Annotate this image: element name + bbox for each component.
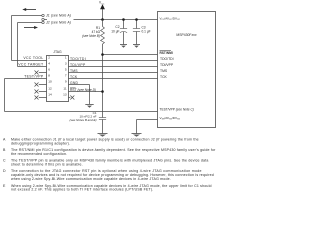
IC U1 MSP430 box [158, 12, 216, 128]
label RST (see Note D) [70, 88, 96, 92]
wire C2 lower stem [123, 32, 125, 45]
svg-text:1: 1 [65, 56, 67, 60]
wire pin10 stub [39, 84, 47, 86]
no-connect X pin 13 [70, 96, 74, 100]
wire Vcc rail [74, 19, 158, 21]
wire C3 stem [136, 20, 138, 29]
svg-text:RST (see Note D): RST (see Note D) [70, 88, 96, 92]
capacitor C3 [133, 29, 140, 32]
pin numbers right column [63, 56, 67, 97]
wire Vcc supply stem [102, 9, 104, 20]
notes text block [3, 138, 216, 192]
connector jumper circle J1 [42, 14, 44, 16]
wire VSS from chip [137, 119, 158, 121]
connector JTAG box [47, 56, 69, 102]
svg-text:D: D [3, 169, 6, 173]
wire VCC TOOL to pin 2 [12, 60, 47, 62]
junction RST/NMI node [101, 53, 104, 56]
svg-text:10 µF: 10 µF [111, 29, 119, 33]
ground (C1) [98, 134, 108, 137]
svg-text:VCC TARGET: VCC TARGET [18, 63, 44, 67]
ground (GND pin 9) [85, 105, 93, 108]
wire J2 feed [18, 22, 42, 24]
wire C3 lower stem [136, 32, 138, 45]
svg-text:7: 7 [65, 74, 67, 78]
wire TEST/VPP vertical [4, 79, 6, 112]
svg-text:14: 14 [48, 93, 52, 97]
svg-text:6: 6 [48, 68, 50, 72]
wire pin12 stub [39, 91, 47, 93]
svg-text:(see Notes B and E): (see Notes B and E) [69, 118, 96, 122]
junction Vcc/R1 [101, 18, 104, 21]
svg-text:TEST/VPP: TEST/VPP [24, 74, 44, 78]
wire J1 feed [12, 15, 42, 17]
svg-text:13: 13 [63, 93, 67, 97]
label pin RST/NMI [160, 51, 173, 55]
wire TEST/VPP from pin 8 [5, 78, 47, 80]
svg-text:when using 2-wire Spy-Bi-Wire: when using 2-wire Spy-Bi-Wire communicat… [11, 177, 171, 181]
svg-text:C: C [3, 158, 6, 162]
svg-text:11: 11 [63, 87, 66, 91]
ground (C3) [133, 45, 140, 48]
svg-text:12: 12 [48, 87, 52, 91]
junction C2 [122, 18, 125, 21]
svg-text:0.1 µF: 0.1 µF [142, 30, 151, 34]
label R1 value [82, 26, 101, 38]
wire VSS vertical [136, 120, 138, 134]
capacitor C2 (polarized) [120, 29, 127, 33]
wire pin6 stub [39, 72, 47, 74]
connector jumper circle J2 [42, 21, 44, 23]
svg-text:VCC TOOL: VCC TOOL [23, 56, 43, 60]
svg-text:TDI/VPP: TDI/VPP [160, 63, 174, 67]
wire TDO/TDI pin1 to chip [69, 60, 158, 62]
label C3 value [142, 25, 151, 33]
ground (C2) [120, 45, 127, 48]
arrow left (tool direction) [22, 8, 36, 11]
wire TDI/VPP pin3 to chip [69, 66, 158, 68]
arrow right (target direction) [24, 26, 38, 29]
wire GND pin9 [69, 84, 90, 86]
wire vertical J2 to VCC TARGET [17, 23, 19, 67]
wire GND vertical [89, 85, 91, 105]
svg-text:MSP430Fxxx: MSP430Fxxx [176, 33, 196, 37]
wire Vcc rail stub at jumper [44, 19, 47, 21]
wire RST net vertical [102, 44, 104, 118]
svg-text:2: 2 [48, 56, 50, 60]
svg-text:(see Note B): (see Note B) [82, 34, 100, 38]
svg-text:TEST/VPP (see Note C): TEST/VPP (see Note C) [160, 107, 194, 111]
svg-text:TMS: TMS [70, 69, 78, 73]
svg-text:TDI/VPP: TDI/VPP [70, 63, 86, 67]
svg-text:debugging/programming adapter): debugging/programming adapter). [11, 141, 70, 145]
wire pin13 stub [69, 97, 71, 99]
no-connect X pin 12 [35, 90, 39, 94]
connector jumper circle center (Vcc rail) [42, 18, 44, 20]
svg-text:5: 5 [65, 68, 67, 72]
svg-text:TDO/TDI: TDO/TDI [70, 57, 86, 61]
no-connect X pin 6 [35, 71, 39, 75]
wire pin14 stub [39, 97, 47, 99]
svg-text:TCK: TCK [160, 75, 168, 79]
wire TCK pin7 to chip [69, 78, 158, 80]
svg-text:sheet to determine if this pin: sheet to determine if this pin is availa… [11, 163, 83, 167]
resistor R1 [101, 27, 105, 45]
junction C3 [135, 18, 138, 21]
wire TMS pin5 to chip [69, 72, 158, 74]
wire RST pin11 [69, 91, 103, 93]
wire C1 lower stem [102, 120, 104, 134]
label C1 value [69, 111, 96, 122]
ground (VSS) [132, 134, 142, 137]
no-connect X pin 10 [35, 83, 39, 87]
power Vcc arrow [100, 4, 105, 9]
svg-text:4: 4 [48, 62, 50, 66]
svg-text:J1 (see Note A): J1 (see Note A) [45, 13, 71, 17]
wire vertical J1 to VCC TOOL [11, 16, 13, 61]
wire RST/NMI to chip [103, 54, 158, 56]
wire C2 stem [123, 20, 125, 29]
svg-text:not exceed 2.2 nF. This applie: not exceed 2.2 nF. This applies to both … [11, 188, 153, 192]
wire TEST/VPP bottom run to chip [5, 111, 158, 113]
svg-text:8: 8 [48, 74, 50, 78]
capacitor C1 [99, 118, 106, 120]
svg-text:J2 (see Note A): J2 (see Note A) [45, 21, 71, 25]
no-connect X pin 14 [35, 96, 39, 100]
pin numbers left column [48, 56, 52, 97]
svg-text:10: 10 [48, 80, 52, 84]
svg-text:TCK: TCK [70, 75, 78, 79]
svg-text:the recommended configuration.: the recommended configuration. [11, 152, 67, 156]
svg-text:9: 9 [65, 80, 67, 84]
svg-text:JTAG: JTAG [53, 50, 62, 54]
junction RST jumper wire [101, 90, 104, 93]
svg-text:RST/NMI: RST/NMI [160, 51, 173, 55]
label C2 value [111, 25, 119, 33]
svg-text:TMS: TMS [160, 69, 168, 73]
svg-text:3: 3 [65, 62, 67, 66]
wire VCC TARGET to pin 4 [18, 66, 47, 68]
svg-text:TDO/TDI: TDO/TDI [160, 57, 174, 61]
svg-text:GND: GND [70, 81, 78, 85]
